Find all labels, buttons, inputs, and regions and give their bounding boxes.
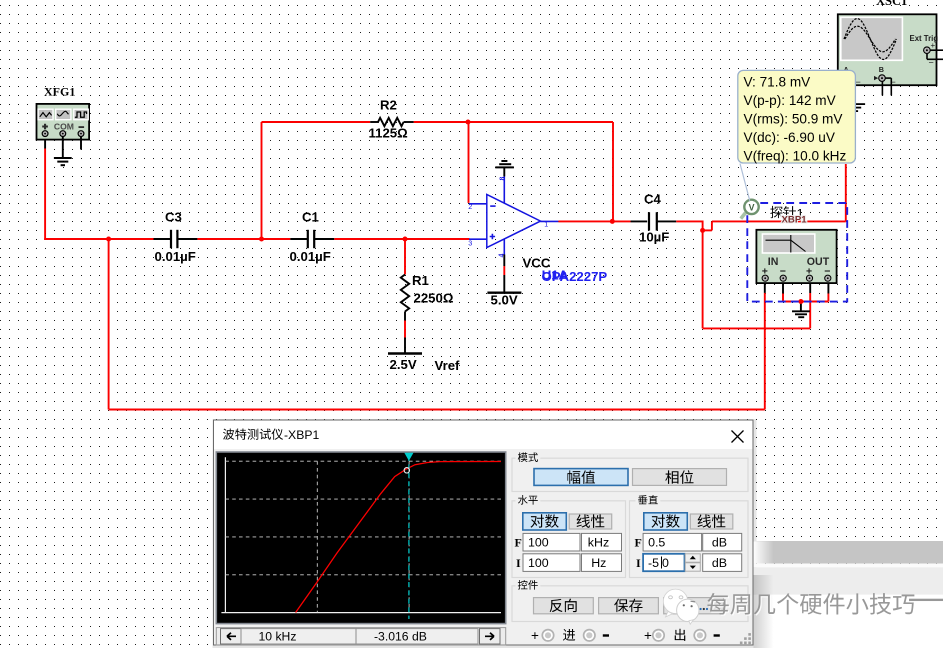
- svg-text:2.5V: 2.5V: [390, 357, 417, 372]
- node junction: [466, 120, 471, 125]
- svg-text:VCC: VCC: [523, 256, 551, 271]
- wire: scope B+ stub: [881, 82, 883, 96]
- svg-text:V(dc): -6.90 uV: V(dc): -6.90 uV: [744, 130, 835, 145]
- svg-text:dB: dB: [712, 556, 727, 570]
- node: input junction to bottom bus: [108, 239, 110, 410]
- svg-text:V: V: [749, 202, 755, 212]
- svg-text:2: 2: [468, 202, 472, 211]
- wire: XBP1 IN+ down to bus: [764, 283, 766, 293]
- button: reverse: [534, 598, 594, 614]
- button: H log: [523, 513, 567, 530]
- wire: output line after C4: [676, 220, 703, 222]
- svg-text:-3.016 dB: -3.016 dB: [374, 630, 427, 644]
- watermark banner: [754, 541, 943, 648]
- button: magnitude (selected): [534, 469, 628, 486]
- probe tooltip: [738, 70, 856, 163]
- svg-text:1: 1: [544, 220, 548, 229]
- svg-text:B: B: [879, 65, 884, 74]
- svg-text:+: +: [644, 628, 652, 643]
- svg-text:I: I: [516, 556, 521, 570]
- ground: XBP1 net: [800, 302, 802, 312]
- wire: scope branch down to output line: [845, 164, 847, 221]
- ground: scope (partially hidden): [855, 104, 865, 111]
- svg-text:IN: IN: [768, 256, 779, 268]
- resize grip: [740, 633, 751, 644]
- svg-text:kHz: kHz: [588, 535, 609, 549]
- group: mode: [512, 458, 748, 491]
- svg-text:10µF: 10µF: [639, 230, 669, 245]
- node junction: [106, 237, 111, 242]
- field: H initial 100 Hz: [523, 554, 580, 572]
- oscilloscope XSC1: [838, 0, 943, 87]
- capacitor C3: [154, 210, 198, 265]
- svg-text:COM: COM: [54, 122, 74, 132]
- svg-text:XSC1: XSC1: [876, 0, 907, 8]
- wire: main input line: [44, 238, 153, 240]
- capacitor C1: [290, 210, 335, 265]
- svg-text:0.5: 0.5: [648, 535, 665, 549]
- wire: XBP1 IN-/OUT- ground net: [782, 283, 784, 293]
- svg-text:I: I: [636, 556, 641, 570]
- ground above op-amp (V+): [495, 161, 514, 176]
- vcc rail 5.0V: [487, 255, 550, 308]
- selection box (dashed) around XBP1: [747, 203, 847, 302]
- svg-text:C3: C3: [165, 210, 182, 225]
- button: V linear: [690, 514, 733, 529]
- svg-text:−: −: [856, 77, 861, 87]
- svg-text:0: 0: [662, 556, 669, 570]
- node junction: [403, 237, 408, 242]
- node junction: [610, 219, 615, 224]
- svg-text:XFG1: XFG1: [44, 84, 75, 98]
- wire: bottom bus: [109, 409, 765, 411]
- svg-text:Vref: Vref: [435, 358, 461, 373]
- plot status bar: [216, 628, 505, 645]
- wire: C3-C1 node up to R2: [261, 122, 263, 239]
- svg-text:-5: -5: [648, 556, 659, 570]
- wire: output jog to XBP1 OUT+: [711, 221, 713, 230]
- bode plot display: [216, 452, 505, 624]
- field: H final 100 kHz: [523, 533, 580, 551]
- button: (hidden by watermark): [664, 598, 724, 614]
- field: V unit dB row2: [703, 554, 742, 572]
- svg-text:F: F: [635, 536, 642, 550]
- svg-text:V(p-p): 142 mV: V(p-p): 142 mV: [744, 93, 836, 108]
- in/out probe row: [531, 628, 720, 643]
- wire: C4 leads: [631, 220, 648, 222]
- wire: op-amp output line: [558, 220, 630, 222]
- group: horizontal: [512, 501, 626, 578]
- resistor R1: [401, 239, 454, 353]
- button: phase: [633, 469, 727, 486]
- wire: R2 right down to output: [612, 122, 614, 221]
- svg-text:C1: C1: [302, 210, 319, 225]
- wire: R2 top line: [262, 121, 371, 123]
- svg-text:10 kHz: 10 kHz: [259, 630, 297, 644]
- watermark text: [707, 593, 943, 616]
- tooltip callout line: [740, 164, 750, 201]
- svg-text:dB: dB: [712, 535, 727, 549]
- svg-text:100: 100: [528, 535, 549, 549]
- group: controls: [512, 586, 748, 622]
- svg-text:R1: R1: [412, 273, 429, 288]
- svg-text:C4: C4: [644, 192, 662, 207]
- wire: XFG1 + output down: [44, 137, 46, 149]
- button: V log: [644, 513, 688, 530]
- wire: scope B- stub: [885, 77, 891, 79]
- resistor R2: [369, 98, 414, 141]
- node junction: [700, 228, 705, 233]
- svg-text:2250Ω: 2250Ω: [414, 291, 454, 306]
- svg-text:V(rms): 50.9 mV: V(rms): 50.9 mV: [744, 112, 843, 127]
- svg-text:-XBP1: -XBP1: [284, 428, 319, 442]
- svg-text:V: 71.8 mV: V: 71.8 mV: [744, 75, 811, 90]
- svg-text:5.0V: 5.0V: [491, 293, 518, 308]
- vref rail 2.5V: [388, 354, 460, 374]
- bode plotter XBP1 icon: [756, 230, 836, 283]
- button: H linear: [569, 514, 612, 529]
- svg-text:F: F: [515, 536, 522, 550]
- svg-text:0.01µF: 0.01µF: [290, 249, 331, 264]
- wire: XFG1 minus stub: [80, 137, 82, 150]
- watermark faces logo: [663, 589, 708, 624]
- svg-text:100: 100: [528, 556, 549, 570]
- group: vertical: [630, 501, 749, 578]
- svg-text:+: +: [931, 41, 936, 50]
- svg-text:8: 8: [498, 177, 507, 181]
- svg-text:−: −: [929, 58, 934, 68]
- bode analyzer dialog window: [213, 419, 757, 648]
- spinner: [685, 554, 700, 571]
- svg-text:3: 3: [468, 238, 472, 247]
- field: V initial -50 dB (focused): [643, 554, 684, 571]
- node junction: [798, 299, 803, 304]
- svg-text:1125Ω: 1125Ω: [369, 126, 409, 141]
- capacitor C4: [639, 192, 669, 245]
- button: save: [599, 598, 659, 614]
- svg-text:XBP1: XBP1: [782, 215, 808, 226]
- node junction: [259, 237, 264, 242]
- probe icon (V magnifier): [741, 200, 759, 219]
- wire: inverting input branch: [468, 122, 470, 203]
- svg-text:V(freq): 10.0 kHz: V(freq): 10.0 kHz: [744, 149, 847, 164]
- svg-text:Hz: Hz: [591, 556, 606, 570]
- svg-text:+: +: [531, 628, 539, 643]
- op-amp U1A OPA2227P: [468, 176, 607, 284]
- svg-text:0.01µF: 0.01µF: [155, 249, 196, 264]
- svg-text:R2: R2: [380, 98, 397, 113]
- field: V final 0.5 dB: [643, 533, 702, 551]
- function generator XFG1: [37, 84, 90, 139]
- label: probe name: [770, 206, 807, 226]
- ground: XFG1 COM: [54, 137, 72, 166]
